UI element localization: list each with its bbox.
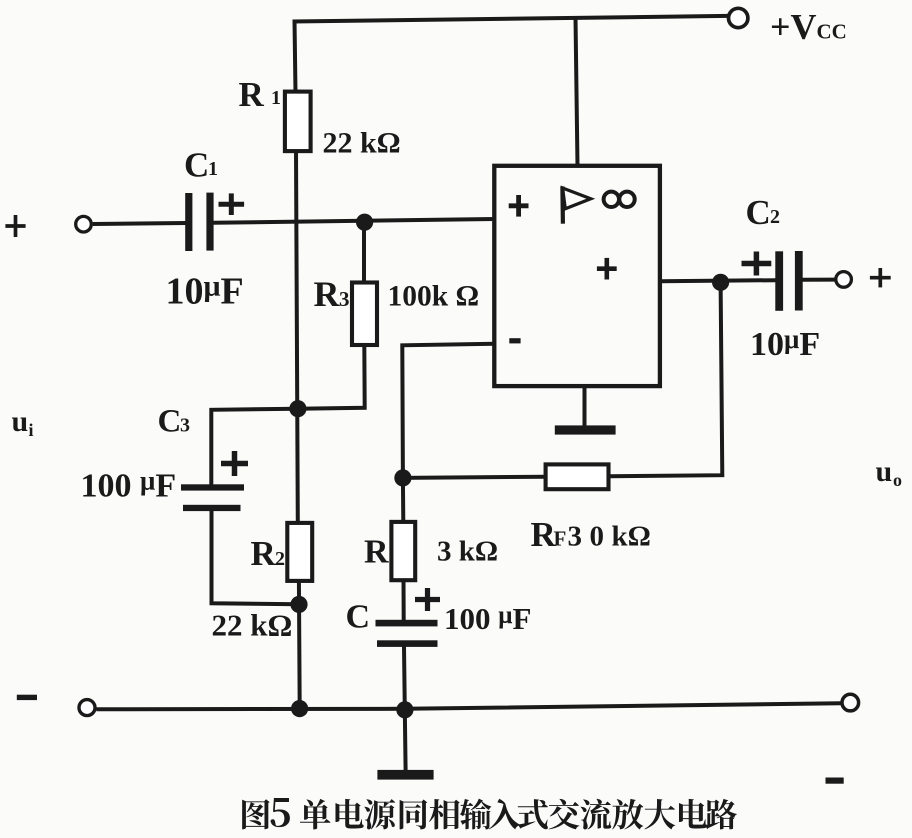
svg-text:22 kΩ: 22 kΩ [212,608,293,643]
label C polarity plus [415,588,440,611]
node G rail junction right [396,701,413,718]
svg-text:100k Ω: 100k Ω [388,281,480,313]
label R3 [314,274,350,314]
label 3 kOhm R [437,536,498,568]
node E output junction [712,274,729,291]
label C1 [184,146,218,185]
label C2 [746,193,781,232]
svg-text:R: R [251,534,277,573]
wire C1 to op-amp noninverting input [213,219,495,223]
terminal input [76,216,92,232]
svg-text:u: u [12,405,29,438]
svg-text:100 μF: 100 μF [81,466,177,505]
wire node D to RF [403,477,546,478]
label input plus [5,215,25,237]
label C1 polarity plus [219,193,245,215]
capacitor C [376,620,438,647]
op-amp U1 body [494,166,660,386]
svg-text:C: C [184,146,209,185]
wire C bottom to rail [402,647,407,710]
svg-text:R: R [239,75,265,114]
label R1 [239,75,282,114]
svg-text:2: 2 [275,548,285,570]
op-amp noninverting plus symbol [509,195,529,217]
wire R3 top lead [362,225,366,283]
label bottom right minus [826,778,844,784]
label R2 [251,534,286,573]
terminal bottom left [79,700,95,716]
svg-text:i: i [29,420,34,440]
label C2 polarity plus [742,252,772,276]
label +Vcc [770,7,847,47]
label 10uF C2 [750,324,820,363]
label RF 30 kOhm [531,515,651,554]
svg-text:o: o [893,470,902,490]
wire RF to output node [609,283,723,476]
wire C2 to output terminal [803,278,835,282]
svg-text:22 kΩ: 22 kΩ [323,127,401,160]
caption title 图5 单电源同相输入式交流放大电路 [242,798,737,830]
op-amp output plus symbol [597,258,617,280]
svg-text:3: 3 [568,521,583,553]
svg-text:F: F [554,527,567,551]
resistor R3 [352,283,377,346]
label 22 kOhm R2 [212,608,293,643]
label 100 uF C [444,601,531,636]
resistor R1 [285,92,311,152]
wire C3 bottom to node C [212,511,299,605]
svg-text:C: C [346,599,371,636]
node C junction [290,596,307,613]
label output plus [870,268,891,287]
svg-text:100 μF: 100 μF [444,601,531,636]
wire top supply rail [293,16,729,22]
svg-text:kΩ: kΩ [612,521,651,553]
wire bottom rail [96,703,841,709]
wire R1 bottom to node A [296,150,298,524]
resistor R2 [287,523,312,581]
label C3 [158,404,191,440]
label ui [12,405,34,440]
ground bottom [377,710,433,780]
svg-text:C: C [746,193,771,232]
svg-text:C: C [158,404,182,440]
capacitor C2 [775,251,802,311]
wire input to C1 [93,223,187,224]
capacitor C3 [181,484,244,511]
label C [346,599,371,636]
op-amp infinity symbol [604,192,635,207]
wire node B to C3 [211,409,297,486]
wire op-amp output [660,280,776,281]
label R [364,534,389,571]
wire inverting input [402,344,494,478]
svg-text:3 kΩ: 3 kΩ [437,536,498,568]
node F rail junction left [291,700,308,717]
svg-text:R: R [364,534,389,571]
svg-text:R: R [314,274,341,314]
terminal +Vcc [729,8,748,27]
svg-text:2: 2 [770,206,780,228]
wire R3 bottom lead [298,345,365,409]
node D junction [394,469,411,486]
svg-text:3: 3 [180,415,190,437]
label bottom left minus [17,695,37,700]
label C3 polarity plus [221,451,248,476]
terminal bottom right [842,694,859,711]
label uo [876,455,903,490]
resistor R [391,522,415,580]
svg-text:1: 1 [271,87,281,109]
resistor RF [546,464,609,489]
svg-text:3: 3 [339,287,350,311]
terminal output [836,272,852,288]
wire R top lead [401,478,405,522]
node B junction [289,400,306,417]
svg-text:0: 0 [590,521,605,553]
wire supply drop to op-amp [576,18,578,166]
svg-text:1: 1 [208,158,218,180]
wire R1 top lead [295,20,296,93]
node A junction [356,214,373,231]
svg-text:u: u [876,455,893,488]
label 100 uF C3 [81,466,177,505]
wire R2 bottom to rail [297,581,302,709]
ground op-amp [555,386,616,435]
wire R bottom lead [402,580,406,621]
op-amp triangle symbol [562,186,590,223]
capacitor C1 [185,193,213,251]
op-amp inverting minus symbol [509,338,520,343]
label 10uF C1 [166,270,244,313]
label 22 kOhm R1 [323,127,401,160]
label 100k Ohm R3 [388,281,480,313]
